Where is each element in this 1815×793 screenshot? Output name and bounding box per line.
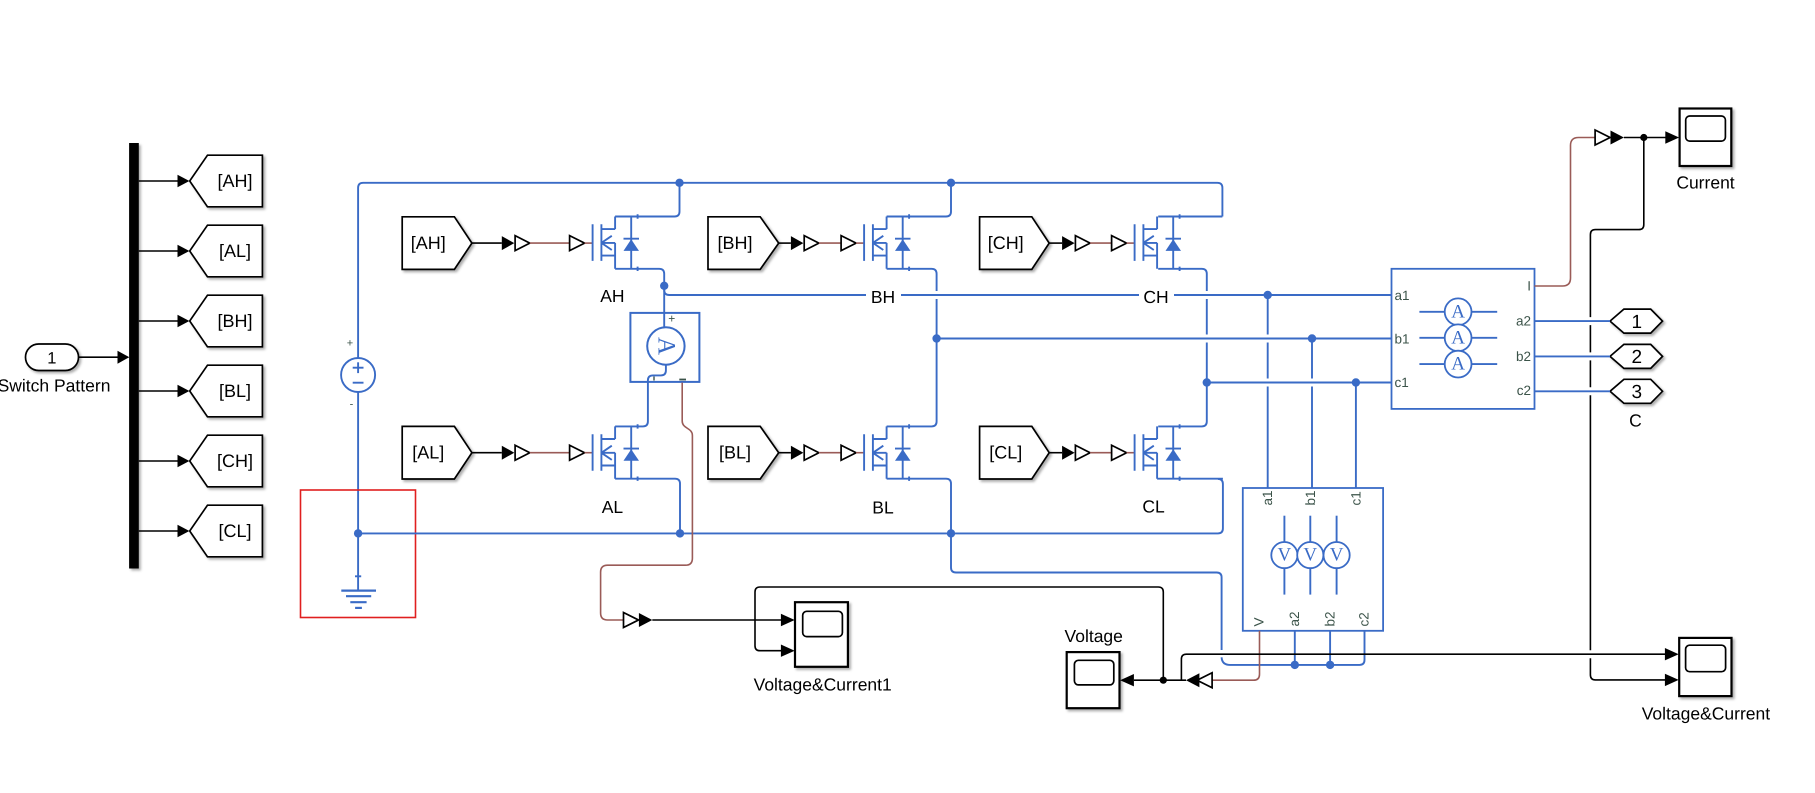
wire tap a to voltage block a1: [1267, 295, 1269, 488]
phase line c: [1207, 382, 1392, 384]
wire BH drain to rail: [887, 183, 951, 217]
neutral wire bottom rail to voltage block a2/b2/c2: [951, 533, 1360, 665]
from tag [AL]: [402, 426, 472, 479]
svg-text:AL: AL: [602, 497, 624, 517]
wire I output (brown) up to converter: [1535, 138, 1596, 287]
svg-text:c1: c1: [1395, 375, 1409, 390]
svg-text:A: A: [652, 337, 679, 355]
mosfet CH: [1135, 214, 1181, 271]
svg-text:a2: a2: [1516, 314, 1531, 329]
svg-text:[AL]: [AL]: [412, 443, 444, 463]
wire b2 to neutral: [1329, 631, 1331, 665]
ground: [341, 591, 376, 608]
goto tag [AH]: [190, 155, 263, 207]
ammeter b: [1419, 324, 1497, 351]
mosfet AL: [593, 424, 639, 481]
svg-text:CH: CH: [1143, 287, 1168, 307]
svg-text:a1: a1: [1260, 490, 1275, 505]
three-phase current measurement block: [1392, 269, 1535, 409]
svg-text:+: +: [668, 312, 675, 326]
node tap a: [1264, 291, 1272, 299]
three-phase voltage measurement block: [1243, 488, 1383, 631]
wire tap b to voltage block b1: [1311, 339, 1313, 489]
svg-text:CL: CL: [1142, 497, 1165, 517]
svg-text:[BH]: [BH]: [217, 311, 252, 331]
wire A meter minus (brown) to converter: [601, 383, 693, 620]
wire a2 to neutral: [1294, 631, 1296, 665]
wire a2 to port 1: [1535, 320, 1611, 322]
wire demux to [BH]: [139, 315, 190, 327]
phase line a: [664, 286, 1391, 295]
svg-text:[CH]: [CH]: [217, 451, 253, 471]
gate chain BL: [779, 445, 864, 460]
node b: [932, 334, 940, 342]
wire converter to Current scope: [1624, 131, 1679, 143]
goto tag [BL]: [190, 365, 263, 417]
voltmeter a: [1271, 516, 1297, 595]
svg-text:[BL]: [BL]: [719, 443, 751, 463]
svg-text:[CL]: [CL]: [218, 521, 251, 541]
svg-text:c1: c1: [1349, 491, 1364, 505]
scope Voltage&Current1: [795, 602, 848, 667]
wire b2 to port 2: [1535, 355, 1611, 357]
wire voltage signal to scope Voltage&Current1 input 2: [755, 587, 1163, 680]
wire c2 to port 3: [1535, 390, 1611, 392]
svg-text:V: V: [1330, 545, 1344, 566]
gate chain AH: [472, 236, 593, 251]
svg-text:[AH]: [AH]: [411, 233, 446, 253]
svg-text:a1: a1: [1395, 288, 1410, 303]
label CH: [1139, 287, 1174, 307]
wire node a into A meter: [663, 286, 665, 328]
gate chain CH: [1049, 236, 1134, 251]
wire demux to [BL]: [139, 385, 190, 397]
wire V output (brown) to converter: [1212, 631, 1259, 680]
wire current signal branch down to Voltage&Current scope input 2: [1590, 138, 1678, 687]
wire c2 to neutral: [1360, 631, 1365, 665]
node tap b: [1308, 334, 1316, 342]
inport 1 (Switch Pattern): [26, 344, 79, 371]
svg-text:1: 1: [47, 350, 56, 368]
svg-text:Voltage&Current1: Voltage&Current1: [754, 675, 892, 695]
wire voltage signal to Voltage scope: [1134, 679, 1186, 681]
node neutral b2: [1326, 661, 1334, 669]
from tag [CL]: [980, 426, 1050, 479]
svg-text:a2: a2: [1287, 611, 1302, 626]
node c: [1203, 378, 1211, 386]
PS-Simulink converter (to Voltage&Current1): [624, 613, 653, 628]
svg-text:[BH]: [BH]: [717, 233, 752, 253]
svg-text:AH: AH: [600, 286, 624, 306]
svg-text:[BL]: [BL]: [219, 381, 251, 401]
wire tap c to voltage block c1: [1355, 383, 1357, 489]
output port 2: [1610, 344, 1663, 368]
node rail-BL: [947, 529, 955, 537]
scope Voltage (mirrored): [1067, 652, 1120, 708]
Simulink-PS converter (voltage, mirrored): [1186, 673, 1212, 688]
red selection box around ground: [301, 490, 416, 618]
svg-text:A: A: [1451, 354, 1465, 375]
node rail-AL: [676, 529, 684, 537]
svg-text:Switch Pattern: Switch Pattern: [0, 376, 110, 396]
svg-text:c2: c2: [1517, 383, 1531, 398]
goto tag [CH]: [190, 435, 263, 487]
goto tag [CL]: [190, 505, 263, 557]
wire DC+ to top rail, rail to CH drain: [358, 183, 1222, 358]
label AH: [595, 286, 630, 306]
label BH: [866, 287, 901, 307]
svg-text:A: A: [1451, 301, 1465, 322]
node current signal: [1640, 134, 1647, 141]
scope Voltage&Current: [1679, 638, 1731, 696]
gate chain CL: [1049, 445, 1134, 460]
svg-text:+: +: [347, 338, 353, 350]
wire AH source to node a: [615, 269, 664, 286]
wire CH drain to rail: [1158, 216, 1222, 218]
wire AH drain to rail: [615, 183, 679, 217]
wire DC- down to ground: [357, 392, 359, 591]
gate chain AL: [472, 445, 593, 460]
svg-text:2: 2: [1632, 347, 1643, 368]
svg-text:V: V: [1303, 545, 1317, 566]
node rail-BH: [947, 179, 955, 187]
svg-text:-: -: [350, 399, 354, 411]
svg-text:V: V: [1278, 545, 1292, 566]
wire demux to [CH]: [139, 455, 190, 467]
ammeter c: [1419, 351, 1497, 378]
goto tag [BH]: [190, 295, 263, 347]
node a: [660, 282, 668, 290]
current sensor block (A meter): [630, 312, 699, 382]
output port 3: [1610, 379, 1663, 403]
wire CH source to CL drain (leg C): [1158, 269, 1207, 427]
svg-text:b1: b1: [1303, 490, 1318, 505]
svg-text:BH: BH: [871, 287, 895, 307]
PS-Simulink converter (current): [1595, 130, 1624, 145]
node neutral a2: [1291, 661, 1299, 669]
demux bar: [129, 143, 139, 569]
wire voltage signal branch to Voltage&Current scope: [1181, 654, 1665, 680]
svg-text:b1: b1: [1395, 331, 1410, 346]
mosfet BL: [864, 424, 910, 481]
svg-text:[CL]: [CL]: [989, 443, 1022, 463]
phase line b: [937, 338, 1392, 340]
mosfet BH: [864, 214, 910, 271]
wire demux to [AH]: [139, 175, 190, 187]
svg-text:Voltage&Current: Voltage&Current: [1642, 704, 1771, 724]
wire AL source to bottom rail: [615, 479, 680, 534]
svg-text:I: I: [1527, 278, 1531, 293]
goto tag [AL]: [190, 225, 263, 277]
node tap c: [1352, 378, 1360, 386]
svg-text:b2: b2: [1516, 349, 1531, 364]
gate chain BH: [779, 236, 864, 251]
wire A meter internal + output to AL drain: [615, 365, 666, 427]
wire BH source to BL drain (leg B): [887, 269, 937, 427]
ammeter a: [1419, 298, 1497, 325]
arrow into Voltage scope (mirrored): [1120, 674, 1134, 686]
svg-text:c2: c2: [1357, 612, 1372, 626]
node ground-rail: [354, 529, 362, 537]
svg-text:Voltage: Voltage: [1065, 626, 1123, 646]
mosfet AH: [593, 214, 639, 271]
mosfet CL: [1135, 424, 1181, 481]
svg-text:3: 3: [1632, 382, 1643, 403]
voltmeter b: [1297, 516, 1323, 595]
voltmeter c: [1324, 516, 1350, 595]
wire CL source to bottom rail: [1157, 478, 1223, 480]
svg-text:1: 1: [1632, 312, 1643, 333]
bottom rail from ground node to CL source: [358, 479, 1223, 534]
svg-text:[AL]: [AL]: [219, 241, 251, 261]
wire BL source to bottom rail: [887, 479, 951, 534]
from tag [BH]: [708, 217, 779, 270]
svg-text:b2: b2: [1323, 611, 1338, 626]
svg-text:A: A: [1451, 327, 1465, 348]
wire inport to demux: [79, 356, 119, 358]
scope Current: [1680, 109, 1732, 167]
node voltage signal: [1160, 677, 1167, 684]
arrow into Voltage&Current scope input 1: [1665, 648, 1679, 660]
wire converter to scope Voltage&Current1 input 1: [652, 614, 794, 626]
svg-text:V: V: [1252, 617, 1267, 626]
output port 1: [1610, 309, 1663, 333]
from tag [BL]: [708, 426, 779, 479]
svg-text:C: C: [1629, 411, 1642, 431]
wire demux to [CL]: [139, 525, 190, 537]
from tag [AH]: [402, 217, 472, 270]
node rail-AH: [675, 179, 683, 187]
svg-text:Current: Current: [1676, 173, 1734, 193]
svg-text:[CH]: [CH]: [988, 233, 1024, 253]
from tag [CH]: [980, 217, 1050, 270]
svg-text:BL: BL: [872, 498, 894, 518]
DC voltage source: [341, 338, 375, 411]
svg-text:[AH]: [AH]: [217, 171, 252, 191]
wire demux to [AL]: [139, 245, 190, 257]
